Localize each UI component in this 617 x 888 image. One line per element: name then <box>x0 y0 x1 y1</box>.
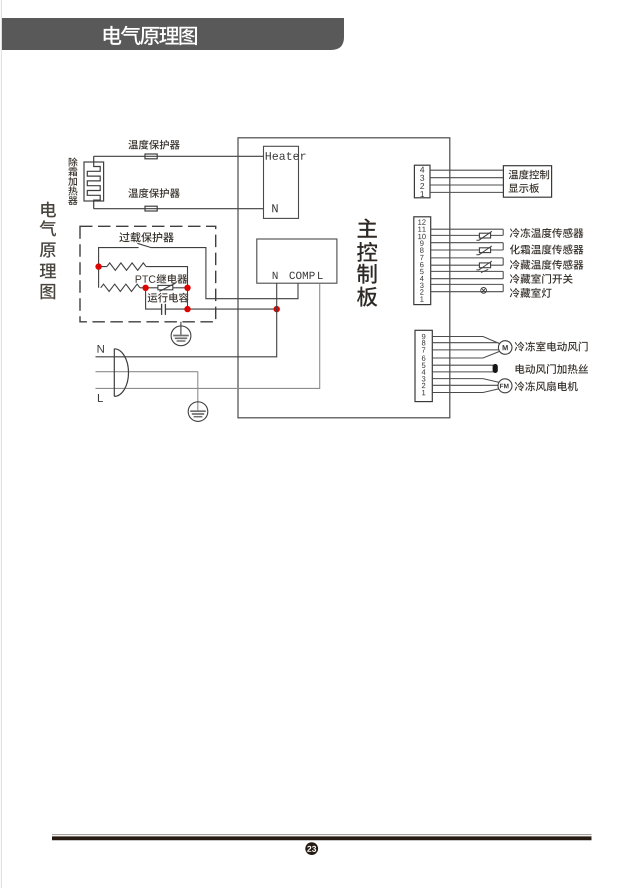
label 主控制板 <box>357 218 377 306</box>
run capacitor C1 <box>162 304 166 315</box>
label 冷藏室门开关 <box>510 274 573 284</box>
wire winding to PTC right <box>99 267 188 286</box>
wire compressor N pin to J5 <box>276 283 278 309</box>
ground G1 <box>171 322 191 346</box>
CN1 pin numbers <box>420 167 424 197</box>
wire PTC to J3 <box>173 287 188 289</box>
label 冷藏室灯 <box>510 288 552 298</box>
footer rule thin <box>52 834 592 836</box>
wire J3 to J4 <box>187 288 189 309</box>
overload switch blade <box>137 243 151 247</box>
label 运行电容 <box>148 293 189 303</box>
label L mains <box>98 394 103 402</box>
main control board box <box>238 138 450 418</box>
aux winding resistor <box>101 284 140 291</box>
label 温度控制显示板 <box>509 170 550 193</box>
label 温度保护器 upper <box>128 140 179 150</box>
junction J1 <box>95 263 101 269</box>
label 电动风门加热丝 <box>516 364 588 374</box>
junction J4 <box>184 306 190 312</box>
ground G2 <box>188 372 208 422</box>
label 除霜加热器 <box>68 157 77 205</box>
freezer sensor RT1 <box>476 231 492 240</box>
defrost heater R1 <box>84 156 104 208</box>
title bar <box>2 18 344 50</box>
wire J2 to PTC <box>146 287 158 289</box>
wire defrost bottom to N terminal <box>94 208 264 210</box>
label 温度保护器 lower <box>128 188 179 198</box>
label N heater pin <box>272 204 277 212</box>
label N COMP L pins <box>273 272 323 279</box>
label 冷冻风扇电机 <box>515 381 578 391</box>
wire J2 down to capacitor <box>146 288 162 309</box>
CN2 pin numbers <box>418 219 426 301</box>
junction J2 <box>142 285 148 291</box>
display board box <box>503 166 551 198</box>
junction J5 <box>274 306 280 312</box>
damper heater element <box>493 364 498 373</box>
side caption 电气原理图 <box>40 202 57 300</box>
connector CN1 <box>414 165 430 198</box>
CN3 wires to damper motor <box>432 337 499 359</box>
wire J4 to J5 <box>188 308 277 310</box>
CN1 wires <box>430 170 503 192</box>
wire L mains <box>96 283 320 388</box>
label 化霜温度传感器 <box>510 244 584 254</box>
wire overload left <box>99 248 139 288</box>
CN3 wires to fan motor <box>432 379 498 393</box>
fan motor FM1 <box>498 379 512 393</box>
main winding resistor <box>107 263 146 270</box>
connector CN3 <box>415 330 432 401</box>
PTC relay RT <box>158 283 175 291</box>
wire defrost top to Heater terminal <box>94 155 264 157</box>
thermal fuse F2 <box>145 206 157 211</box>
damper motor M1 <box>498 341 512 355</box>
label 冷冻室电动风门 <box>515 341 588 351</box>
wire winding to J2 <box>140 287 146 289</box>
fridge lamp E1 <box>481 288 487 294</box>
overload protector dashed box <box>80 226 216 321</box>
page number badge <box>305 842 318 855</box>
thermal fuse F1 <box>145 154 157 159</box>
CN3 wires to damper heater <box>432 365 493 372</box>
plug P1 <box>114 349 128 397</box>
compressor box <box>257 239 337 283</box>
label 冷冻温度传感器 <box>510 228 584 238</box>
footer rule thick <box>52 836 592 840</box>
wire capacitor to J4 <box>165 308 187 310</box>
junction J3 <box>184 285 190 291</box>
page left edge line <box>0 0 2 888</box>
label 过载保护器 <box>119 232 173 242</box>
wire overload right to COMP pin <box>151 248 298 299</box>
label N mains <box>98 345 104 353</box>
label 冷藏温度传感器 <box>510 260 584 270</box>
CN2 wires <box>431 229 504 292</box>
heater terminal box U2 <box>264 146 299 218</box>
door switch S1 <box>481 269 488 272</box>
wire earth mid <box>96 371 198 373</box>
wire N mains <box>96 309 277 357</box>
label PTC继电器 <box>136 274 188 284</box>
defrost sensor RT2 <box>476 246 492 255</box>
label Heater <box>266 152 306 160</box>
fridge sensor RT3 <box>476 261 492 270</box>
title text 电气原理图 <box>104 26 197 45</box>
connector CN2 <box>414 217 431 305</box>
CN3 pin numbers <box>422 334 426 395</box>
